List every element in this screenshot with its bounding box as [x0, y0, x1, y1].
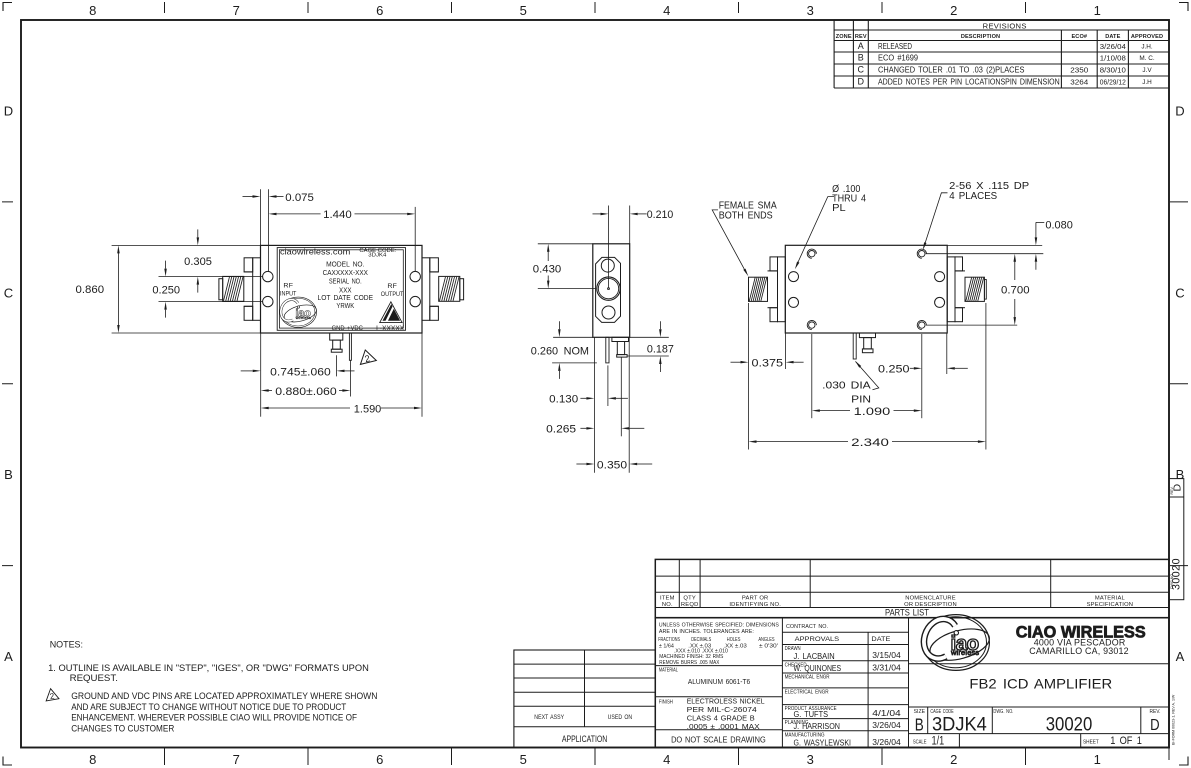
svg-text:OUTPUT: OUTPUT — [381, 291, 404, 298]
svg-text:30020: 30020 — [1046, 713, 1093, 735]
svg-text:PL: PL — [832, 203, 846, 214]
svg-text:3264: 3264 — [1070, 78, 1088, 87]
svg-text:MATERIAL: MATERIAL — [659, 667, 679, 673]
svg-text:INPUT: INPUT — [280, 290, 296, 297]
svg-text:B: B — [858, 53, 864, 63]
svg-text:A: A — [4, 649, 13, 664]
svg-text:3/26/04: 3/26/04 — [872, 737, 901, 747]
svg-text:5: 5 — [520, 752, 527, 767]
svg-text:ECO#: ECO# — [1071, 34, 1087, 40]
svg-text:ALUMINUM 6061-T6: ALUMINUM 6061-T6 — [688, 677, 750, 686]
svg-text:wireless: wireless — [296, 315, 311, 320]
svg-text:DESCRIPTION: DESCRIPTION — [961, 34, 1000, 40]
svg-text:0.305: 0.305 — [184, 256, 212, 268]
svg-text:1: 1 — [1094, 3, 1101, 18]
svg-text:3/15/04: 3/15/04 — [872, 650, 901, 660]
svg-text:DATE: DATE — [1105, 34, 1120, 40]
svg-text:W. QUINONES: W. QUINONES — [794, 663, 842, 673]
svg-text:.030 DIA: .030 DIA — [822, 380, 871, 392]
svg-text:1.090: 1.090 — [854, 406, 891, 418]
svg-text:APPLICATION: APPLICATION — [562, 734, 608, 744]
svg-text:0.745±.060: 0.745±.060 — [270, 366, 331, 378]
svg-text:7: 7 — [233, 3, 240, 18]
svg-text:CAMARILLO CA, 93012: CAMARILLO CA, 93012 — [1029, 646, 1129, 656]
svg-text:NO.: NO. — [662, 602, 673, 608]
svg-text:6: 6 — [376, 752, 383, 767]
svg-text:RELEASED: RELEASED — [878, 42, 912, 51]
svg-text:ECO #1699: ECO #1699 — [878, 54, 918, 63]
svg-text:8: 8 — [89, 752, 96, 767]
svg-text:1 OF 1: 1 OF 1 — [1110, 735, 1142, 747]
svg-text:3/26/04: 3/26/04 — [1100, 42, 1126, 51]
svg-text:B: B — [915, 714, 924, 734]
svg-text:3/31/04: 3/31/04 — [872, 662, 901, 672]
svg-text:SHEET: SHEET — [1083, 739, 1099, 745]
svg-text:D: D — [1175, 103, 1184, 118]
svg-text:APPROVALS: APPROVALS — [795, 636, 840, 643]
svg-text:4: 4 — [663, 752, 670, 767]
svg-text:ANGLES: ANGLES — [758, 637, 774, 643]
svg-text:0.375: 0.375 — [752, 357, 784, 369]
svg-text:PARTS LIST: PARTS LIST — [885, 608, 929, 618]
svg-text:ADDED NOTES PER PIN LOCATIONSP: ADDED NOTES PER PIN LOCATIONSPIN DIMENSI… — [878, 78, 1060, 87]
svg-text:J.H: J.H — [1142, 79, 1152, 86]
svg-text:MODEL NO.: MODEL NO. — [326, 259, 364, 268]
svg-text:FB2 ICD AMPLIFIER: FB2 ICD AMPLIFIER — [969, 677, 1112, 692]
svg-text:06/29/12: 06/29/12 — [1100, 78, 1126, 87]
svg-text:QTY: QTY — [683, 596, 696, 602]
svg-text:4/1/04: 4/1/04 — [872, 708, 901, 718]
svg-text:0.350: 0.350 — [597, 459, 627, 471]
svg-text:RF: RF — [283, 282, 293, 289]
svg-text:G. TUFTS: G. TUFTS — [794, 709, 829, 719]
svg-text:0.130: 0.130 — [549, 394, 578, 406]
svg-text:DWG. NO.: DWG. NO. — [993, 709, 1013, 715]
svg-text:RF: RF — [387, 283, 397, 290]
svg-text:B: B — [4, 467, 13, 482]
svg-text:wireless: wireless — [950, 648, 979, 657]
svg-text:0.700: 0.700 — [1001, 284, 1030, 296]
svg-text:ZONE: ZONE — [836, 34, 852, 40]
svg-text:5: 5 — [520, 3, 527, 18]
svg-text:ARE IN INCHES. TOLERANCES AR: ARE IN INCHES. TOLERANCES ARE: — [659, 629, 754, 635]
svg-text:MECHANICAL ENGR: MECHANICAL ENGR — [785, 675, 830, 681]
svg-text:D: D — [1172, 484, 1184, 492]
svg-text:C: C — [858, 65, 865, 75]
svg-text:NOMENCLATURE: NOMENCLATURE — [905, 596, 956, 602]
svg-text:L-XXXXX: L-XXXXX — [376, 326, 404, 333]
svg-text:ELECTRICAL ENGR: ELECTRICAL ENGR — [785, 690, 829, 696]
svg-text:CHANGES TO CUSTOMER: CHANGES TO CUSTOMER — [71, 722, 174, 733]
svg-text:FINISH: FINISH — [659, 700, 673, 706]
svg-text:DWG NO.: DWG NO. — [1170, 573, 1174, 589]
svg-text:± 0'30': ± 0'30' — [759, 643, 778, 649]
svg-text:0.210: 0.210 — [647, 209, 674, 221]
svg-text:3DJK4: 3DJK4 — [932, 713, 987, 735]
svg-text:BOTH ENDS: BOTH ENDS — [719, 210, 773, 221]
svg-text:DECIMALS: DECIMALS — [691, 637, 711, 643]
svg-text:8/30/10: 8/30/10 — [1100, 66, 1126, 75]
svg-text:3: 3 — [807, 3, 814, 18]
svg-text:0.860: 0.860 — [76, 284, 105, 296]
svg-text:3: 3 — [807, 752, 814, 767]
svg-text:3/26/04: 3/26/04 — [872, 720, 901, 730]
svg-text:HOLES: HOLES — [727, 637, 741, 643]
svg-text:REVISIONS: REVISIONS — [983, 22, 1027, 31]
svg-text:J. HARRISON: J. HARRISON — [794, 721, 841, 731]
svg-text:NOTES:: NOTES: — [50, 639, 83, 650]
svg-text:2350: 2350 — [1070, 66, 1088, 75]
svg-text:USED ON: USED ON — [608, 714, 633, 721]
svg-text:0.250: 0.250 — [878, 363, 910, 375]
svg-text:7: 7 — [233, 752, 240, 767]
svg-text:CHANGED TOLER .01 TO .03 (2)PL: CHANGED TOLER .01 TO .03 (2)PLACES — [878, 66, 1024, 75]
svg-text:J.H.: J.H. — [1141, 44, 1153, 51]
svg-text:PART OR: PART OR — [742, 596, 769, 602]
svg-text:0.075: 0.075 — [285, 192, 314, 204]
svg-text:1.590: 1.590 — [354, 403, 382, 415]
svg-text:REQUEST.: REQUEST. — [70, 672, 118, 683]
svg-text:A: A — [858, 41, 864, 51]
svg-text:1/10/08: 1/10/08 — [1100, 54, 1126, 63]
svg-text:0.250: 0.250 — [152, 285, 180, 297]
svg-text:D: D — [4, 103, 13, 118]
svg-text:0.430: 0.430 — [533, 263, 562, 275]
svg-text:NEXT ASSY: NEXT ASSY — [534, 714, 564, 721]
svg-text:BI-FORM 00023-1, REV A, 1/W: BI-FORM 00023-1, REV A, 1/W — [1172, 694, 1176, 745]
svg-text:2: 2 — [950, 3, 957, 18]
svg-text:G. WASYLEWSKI: G. WASYLEWSKI — [794, 738, 852, 748]
svg-text:IDENTIFYING NO.: IDENTIFYING NO. — [729, 602, 781, 608]
svg-text:DATE: DATE — [871, 636, 890, 643]
svg-text:MATERIAL: MATERIAL — [1095, 596, 1126, 602]
svg-text:DO NOT SCALE DRAWING: DO NOT SCALE DRAWING — [671, 735, 766, 744]
svg-text:0.265: 0.265 — [546, 424, 576, 436]
svg-text:± 1/64: ± 1/64 — [659, 643, 675, 649]
svg-text:REV.: REV. — [1150, 709, 1161, 715]
svg-text:REQD: REQD — [681, 602, 699, 608]
svg-text:D: D — [1150, 717, 1160, 734]
svg-text:PIN: PIN — [851, 394, 871, 406]
svg-text:1/1: 1/1 — [932, 735, 945, 747]
svg-text:YRWK: YRWK — [336, 301, 354, 310]
svg-text:AND ARE SUBJECT TO CHANGE WITH: AND ARE SUBJECT TO CHANGE WITHOUT NOTICE… — [71, 701, 346, 712]
svg-text:3DJK4: 3DJK4 — [368, 253, 387, 259]
svg-text:8: 8 — [89, 3, 96, 18]
svg-text:.0005 ± .0001 MAX: .0005 ± .0001 MAX — [687, 722, 760, 731]
svg-text:1: 1 — [1094, 752, 1101, 767]
svg-text:2: 2 — [950, 752, 957, 767]
svg-text:2.340: 2.340 — [851, 437, 889, 449]
svg-text:SCALE: SCALE — [913, 739, 927, 745]
svg-text:GROUND AND VDC PINS ARE LOCATE: GROUND AND VDC PINS ARE LOCATED APPROXIM… — [71, 690, 377, 701]
svg-text:J. LACBAIN: J. LACBAIN — [794, 651, 835, 661]
svg-text:J.V: J.V — [1142, 67, 1152, 74]
svg-text:UNLESS OTHERWISE SPECIFIED: DI: UNLESS OTHERWISE SPECIFIED: DIMENSIONS — [659, 623, 779, 629]
svg-text:GND +VDC: GND +VDC — [332, 325, 363, 332]
svg-text:REMOVE BURRS .005 MAX: REMOVE BURRS .005 MAX — [659, 660, 719, 666]
svg-text:0.260 NOM: 0.260 NOM — [531, 345, 589, 357]
svg-text:0.880±.060: 0.880±.060 — [275, 386, 336, 398]
svg-text:ciaowireless.com: ciaowireless.com — [280, 247, 350, 257]
svg-text:C: C — [4, 285, 13, 300]
svg-text:ENHANCEMENT. WHEREVER POSSIBLE: ENHANCEMENT. WHEREVER POSSIBLE CIAO WILL… — [71, 712, 357, 723]
svg-text:FRACTIONS: FRACTIONS — [658, 637, 680, 643]
svg-text:0.187: 0.187 — [647, 343, 674, 355]
svg-text:A: A — [1176, 649, 1185, 664]
svg-text:CONTRACT NO.: CONTRACT NO. — [786, 624, 828, 630]
svg-text:ITEM: ITEM — [660, 596, 675, 602]
svg-text:1.440: 1.440 — [323, 209, 352, 221]
svg-text:4: 4 — [663, 3, 670, 18]
svg-text:APPROVED: APPROVED — [1131, 34, 1163, 40]
svg-text:0.080: 0.080 — [1045, 219, 1072, 231]
svg-text:D: D — [858, 77, 865, 87]
svg-text:M. C.: M. C. — [1139, 55, 1154, 62]
svg-text:SPECIFICATION: SPECIFICATION — [1087, 602, 1134, 608]
svg-text:B: B — [1176, 467, 1185, 482]
svg-text:REV: REV — [855, 34, 867, 40]
svg-text:6: 6 — [376, 3, 383, 18]
svg-text:4 PLACES: 4 PLACES — [949, 191, 997, 202]
svg-text:C: C — [1175, 285, 1184, 300]
